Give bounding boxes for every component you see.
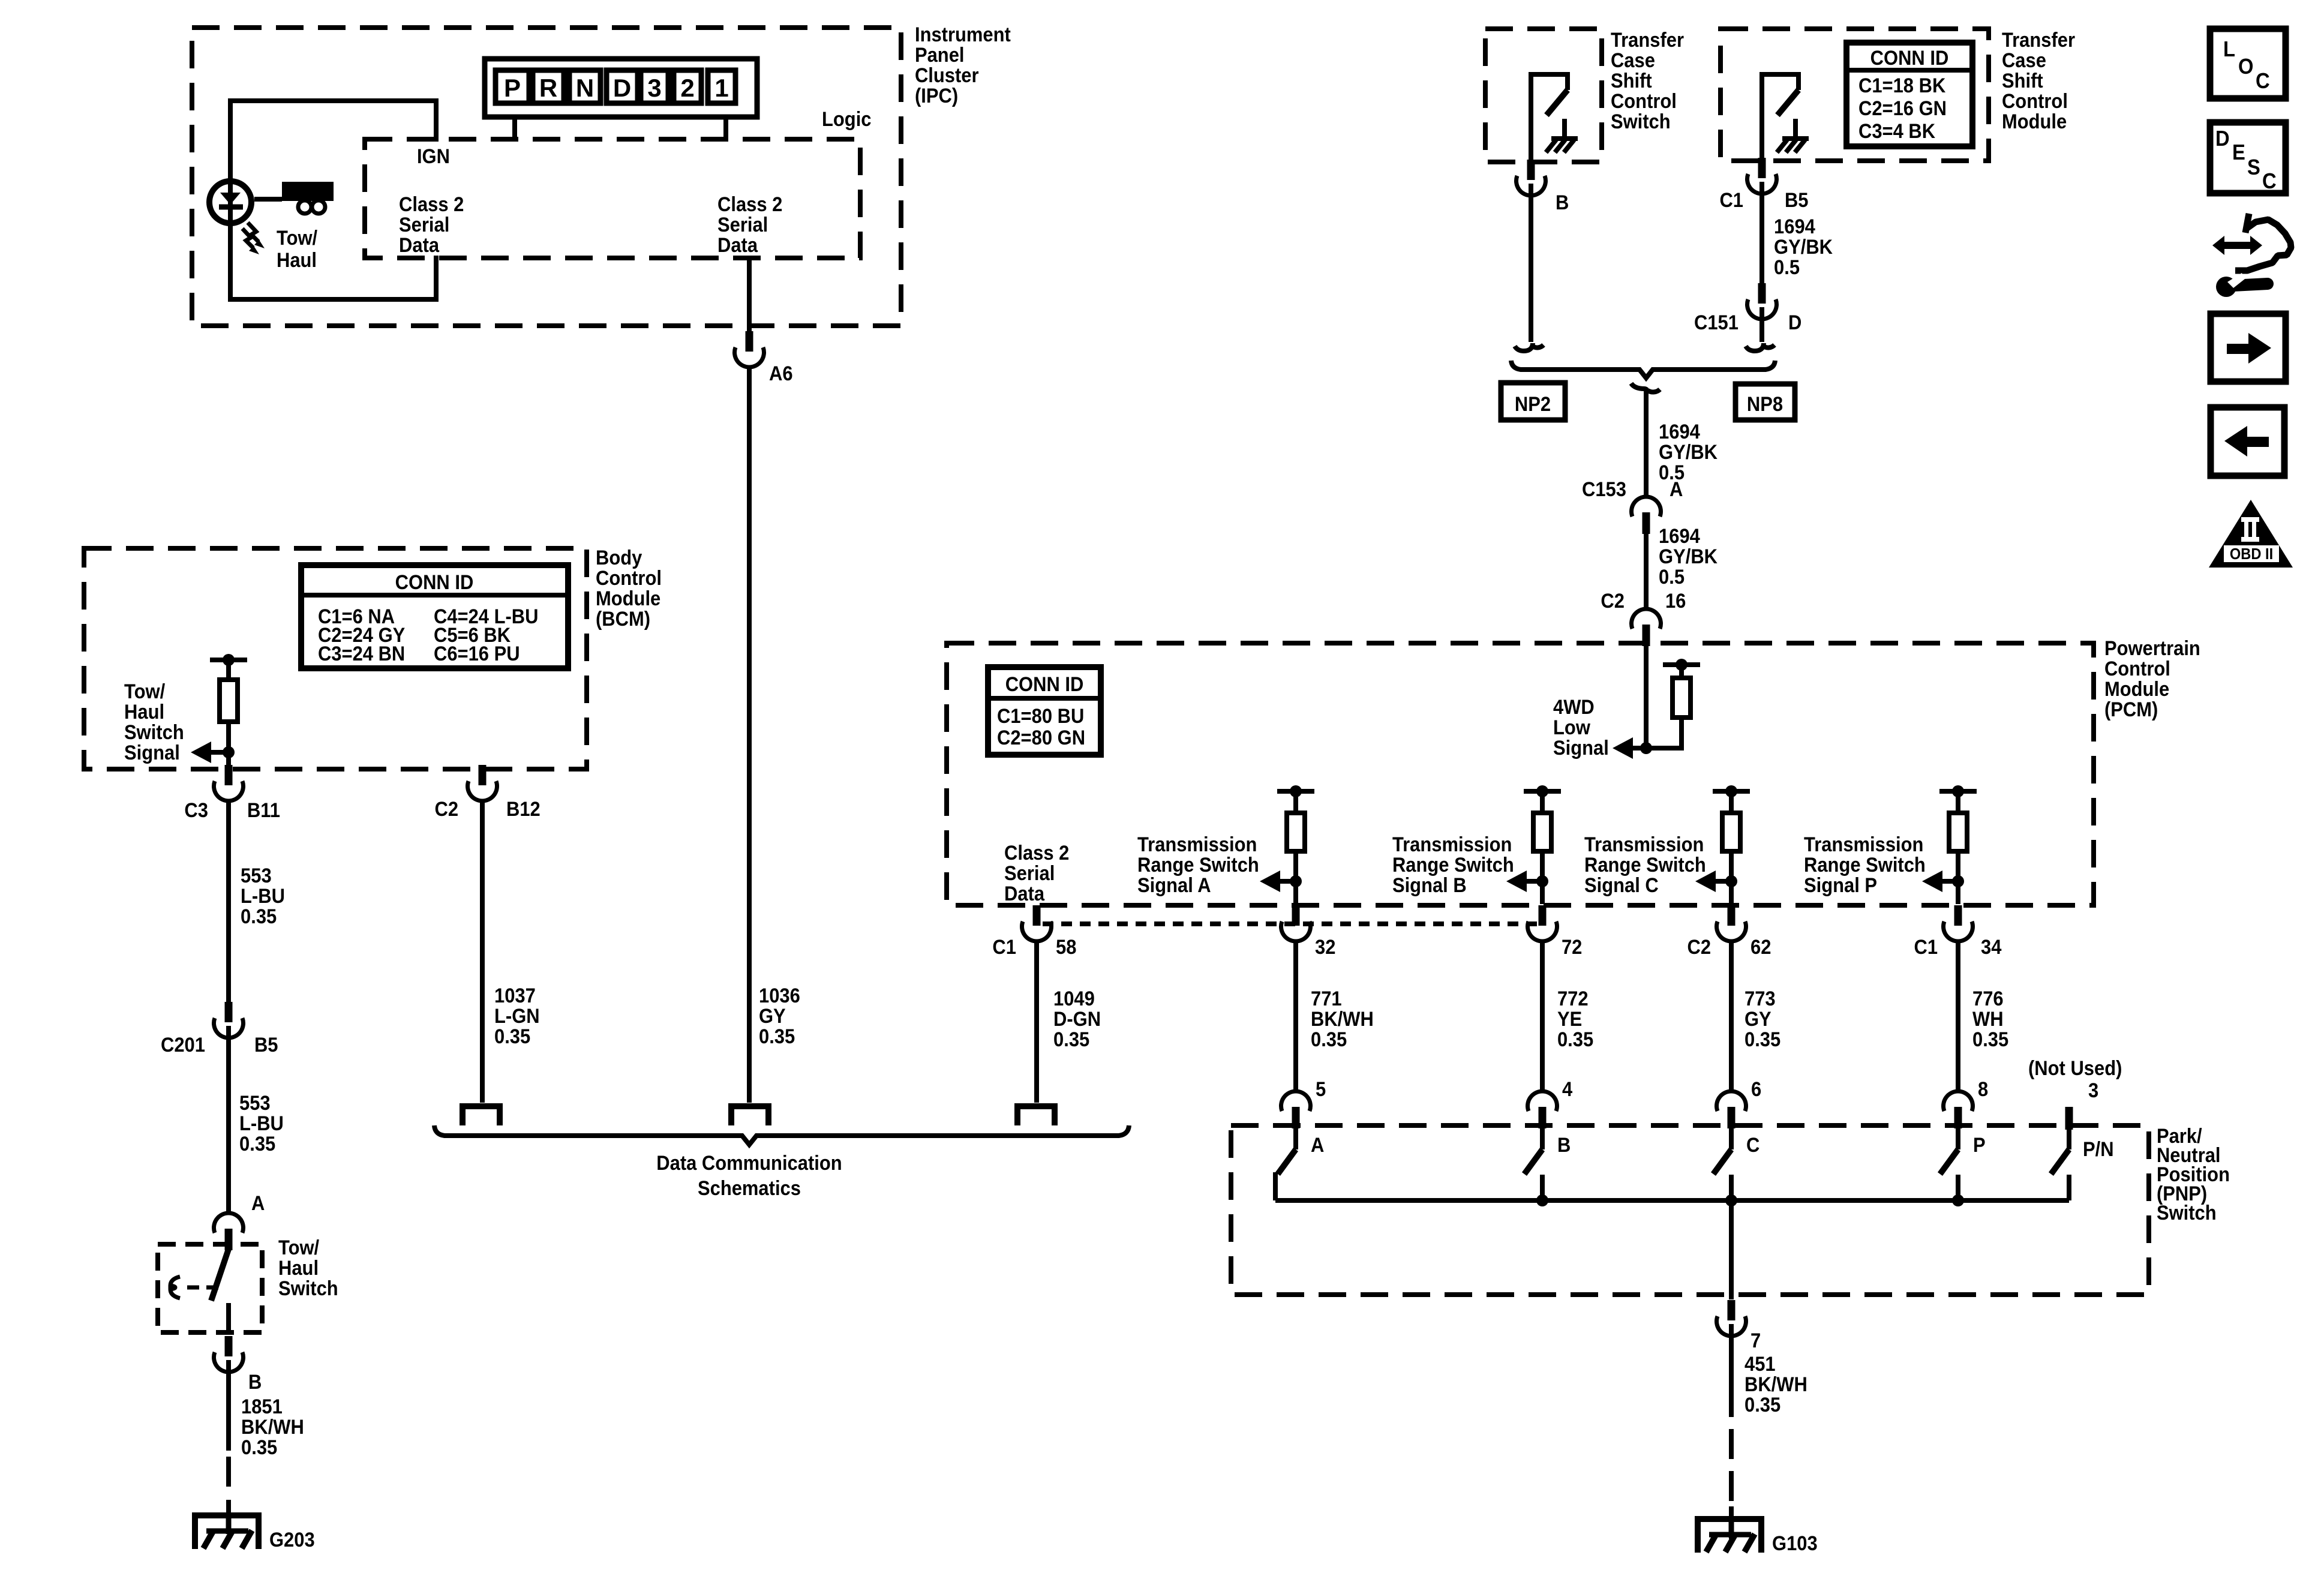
svg-text:7: 7 <box>1750 1329 1761 1352</box>
svg-text:4WD: 4WD <box>1553 696 1595 719</box>
connector pin 5 at PNP switch <box>1292 1107 1300 1128</box>
logic box inside IPC, dashed <box>365 139 860 258</box>
svg-text:C3=4 BK: C3=4 BK <box>1858 120 1936 143</box>
svg-text:B5: B5 <box>1785 189 1809 212</box>
wire 1851 dashed segment <box>226 1457 231 1487</box>
svg-text:P: P <box>1973 1134 1986 1157</box>
resistor (range switch signal A pull-up) <box>1277 789 1314 794</box>
svg-text:Shift: Shift <box>1611 70 1652 92</box>
svg-text:B: B <box>1557 1134 1571 1157</box>
wire start swash below brace <box>1631 383 1660 394</box>
svg-text:Transmission: Transmission <box>1804 833 1923 856</box>
svg-text:72: 72 <box>1562 936 1582 959</box>
svg-text:776: 776 <box>1972 987 2004 1010</box>
junction node signal B <box>1536 875 1548 887</box>
svg-text:G203: G203 <box>269 1529 315 1551</box>
wire from bus to pin 7 <box>1729 1200 1734 1299</box>
svg-text:Class 2: Class 2 <box>717 193 782 216</box>
svg-text:1694: 1694 <box>1659 421 1700 443</box>
svg-text:C1: C1 <box>992 936 1016 959</box>
svg-text:C: C <box>2262 170 2277 194</box>
svg-text:B: B <box>1556 191 1569 214</box>
brace Data Communication Schematics <box>434 1125 1129 1145</box>
PRND segment N <box>569 70 600 103</box>
svg-text:C1: C1 <box>1719 189 1743 212</box>
svg-text:553: 553 <box>241 864 272 887</box>
svg-text:1851: 1851 <box>241 1395 283 1418</box>
connector A6 at IPC <box>746 331 753 352</box>
svg-text:Module: Module <box>2002 110 2067 133</box>
svg-text:B5: B5 <box>254 1034 278 1056</box>
wire 553 L-BU lower <box>226 1026 231 1214</box>
svg-text:N: N <box>576 74 594 102</box>
svg-text:Logic: Logic <box>822 108 871 131</box>
PRND segment D <box>606 70 638 103</box>
connector B at Tow/Haul switch <box>225 1336 233 1356</box>
junction node 4WD low <box>1640 742 1652 754</box>
svg-text:Class 2: Class 2 <box>399 193 464 216</box>
svg-text:CONN ID: CONN ID <box>1005 673 1084 696</box>
wire 1049 D-GN <box>1034 941 1039 1103</box>
resistor (range switch signal B pull-up) <box>1524 789 1561 794</box>
module box PCM (Powertrain Control Module), dashed <box>947 643 2094 905</box>
CONN ID table (TC module) <box>1846 43 1972 146</box>
svg-text:Switch: Switch <box>124 721 184 744</box>
svg-text:Range Switch: Range Switch <box>1804 854 1926 876</box>
wire end swash (right) <box>1746 343 1774 351</box>
svg-text:L-BU: L-BU <box>239 1112 284 1135</box>
svg-text:YE: YE <box>1557 1008 1582 1031</box>
svg-text:Powertrain: Powertrain <box>2104 637 2200 660</box>
wire inside BCM to C3 pin <box>226 722 231 767</box>
module box Transfer Case Shift Control Module, dashed <box>1721 29 1989 161</box>
bus bracket under 1036 <box>731 1106 768 1125</box>
svg-text:553: 553 <box>239 1092 271 1115</box>
CONN ID table (BCM) <box>301 565 568 668</box>
wire resistor C to PCM edge <box>1729 851 1734 904</box>
svg-text:2: 2 <box>680 74 694 102</box>
resistor (Tow/Haul switch signal pull-up) <box>210 658 247 662</box>
svg-text:0.35: 0.35 <box>239 1133 275 1155</box>
svg-text:GY/BK: GY/BK <box>1659 441 1718 464</box>
resistor (range switch signal C pull-up) <box>1713 789 1750 794</box>
connector C2 / 62 <box>1728 905 1736 926</box>
svg-text:P/N: P/N <box>2083 1138 2114 1161</box>
svg-text:16: 16 <box>1665 590 1686 613</box>
PRND321 shift indicator display <box>485 59 757 117</box>
option box NP2 <box>1501 383 1565 420</box>
svg-text:C2: C2 <box>1687 936 1711 959</box>
switch contact B of PNP <box>1540 1127 1545 1149</box>
CONN ID table (PCM) <box>988 667 1101 755</box>
svg-text:(PCM): (PCM) <box>2104 698 2158 721</box>
connector C2 / 16 at PCM <box>1643 625 1650 646</box>
svg-text:Haul: Haul <box>277 249 317 272</box>
svg-text:Class 2: Class 2 <box>1004 842 1069 864</box>
svg-text:Tow/: Tow/ <box>278 1236 319 1259</box>
svg-text:GY: GY <box>759 1005 786 1028</box>
connector C151 / D <box>1758 283 1766 304</box>
svg-text:4: 4 <box>1562 1078 1572 1101</box>
svg-text:1694: 1694 <box>1659 525 1700 548</box>
svg-text:IGN: IGN <box>417 145 450 168</box>
svg-text:Control: Control <box>2104 658 2170 680</box>
svg-text:BK/WH: BK/WH <box>241 1416 304 1439</box>
wire PRND left leg to Logic box <box>512 117 517 142</box>
wire 451 BK/WH solid <box>1729 1324 1734 1417</box>
signal arrow Transmission Range Switch Signal P <box>1939 879 1958 884</box>
svg-text:Haul: Haul <box>278 1257 319 1280</box>
svg-text:Tow/: Tow/ <box>277 227 317 250</box>
svg-text:34: 34 <box>1981 936 2001 959</box>
PRND segment P <box>496 70 529 103</box>
svg-text:Transfer: Transfer <box>2002 29 2075 52</box>
svg-text:Shift: Shift <box>2002 70 2043 92</box>
svg-text:Data: Data <box>399 234 440 257</box>
svg-text:Switch: Switch <box>1611 110 1671 133</box>
svg-text:Transmission: Transmission <box>1137 833 1257 856</box>
icon LOC box <box>2210 29 2286 98</box>
svg-text:(Not Used): (Not Used) <box>2028 1057 2122 1080</box>
svg-text:C2=80 GN: C2=80 GN <box>997 727 1085 749</box>
wire 451 dashed segment <box>1729 1429 1734 1501</box>
connector pin 6 at PNP switch <box>1728 1107 1736 1128</box>
svg-text:C3=24 BN: C3=24 BN <box>318 643 405 665</box>
svg-text:C153: C153 <box>1582 478 1626 501</box>
connector 32 <box>1292 905 1300 926</box>
svg-text:Control: Control <box>596 567 662 590</box>
switch S1 inside TC shift control switch <box>1529 74 1533 160</box>
svg-text:0.5: 0.5 <box>1659 566 1685 589</box>
connector C153 / A <box>1643 512 1650 534</box>
svg-text:8: 8 <box>1978 1078 1988 1101</box>
svg-text:Schematics: Schematics <box>698 1177 801 1200</box>
connector C3 / B11 at BCM <box>225 765 233 785</box>
svg-text:C1=18 BK: C1=18 BK <box>1858 74 1946 97</box>
svg-text:0.35: 0.35 <box>1311 1028 1347 1051</box>
junction node signal C <box>1725 875 1737 887</box>
svg-text:Cluster: Cluster <box>915 64 979 87</box>
svg-text:32: 32 <box>1315 936 1335 959</box>
wire up into Logic box bottom <box>434 256 439 302</box>
svg-text:Data Communication: Data Communication <box>656 1152 842 1175</box>
dotted harness line from 58 to 72 <box>1043 921 1539 926</box>
brace joining B and D wires <box>1511 361 1775 378</box>
PRND segment 2 <box>674 70 701 103</box>
svg-text:C2: C2 <box>1601 590 1625 613</box>
svg-text:(BCM): (BCM) <box>596 608 650 631</box>
bus bracket under 1049 <box>1017 1106 1055 1125</box>
svg-text:NP2: NP2 <box>1515 393 1551 416</box>
svg-text:CONN ID: CONN ID <box>1870 47 1949 70</box>
svg-text:A: A <box>1670 478 1683 501</box>
wire 771 BK/WH <box>1293 941 1298 1092</box>
svg-text:Switch: Switch <box>278 1277 338 1300</box>
wire resistor P to PCM edge <box>1956 851 1960 904</box>
svg-text:Range Switch: Range Switch <box>1137 854 1259 876</box>
svg-text:Signal P: Signal P <box>1804 874 1877 897</box>
svg-text:GY/BK: GY/BK <box>1659 545 1718 568</box>
svg-text:Module: Module <box>596 587 660 610</box>
svg-text:3: 3 <box>2088 1079 2098 1102</box>
connector A at Tow/Haul switch <box>225 1229 233 1250</box>
option box NP8 <box>1736 384 1795 420</box>
svg-text:0.5: 0.5 <box>1774 256 1800 279</box>
wire 776 WH <box>1956 941 1960 1092</box>
connector C2 / B12 at BCM <box>479 765 487 785</box>
wire down into Logic box (IGN) <box>434 98 439 142</box>
signal arrow Transmission Range Switch Signal C <box>1712 879 1731 884</box>
wire stub to G203 <box>226 1500 231 1534</box>
svg-text:GY: GY <box>1744 1008 1771 1031</box>
svg-text:A: A <box>251 1192 265 1215</box>
svg-text:451: 451 <box>1744 1353 1776 1376</box>
svg-text:1037: 1037 <box>494 984 536 1007</box>
svg-text:0.35: 0.35 <box>759 1025 795 1048</box>
signal arrow 4WD Low Signal <box>1629 746 1646 751</box>
svg-text:0.35: 0.35 <box>1053 1028 1089 1051</box>
wire 4WD low signal inside PCM <box>1644 644 1649 748</box>
svg-text:Signal A: Signal A <box>1137 874 1211 897</box>
svg-text:1036: 1036 <box>759 984 800 1007</box>
svg-text:0.35: 0.35 <box>494 1025 530 1048</box>
svg-text:D: D <box>1788 311 1801 334</box>
svg-text:Transmission: Transmission <box>1392 833 1512 856</box>
PRND segment 3 <box>641 70 668 103</box>
wire Class 2 serial data from Logic box to IPC edge <box>747 258 752 331</box>
wire D down to brace <box>1759 307 1764 342</box>
wire B5 down to C151 <box>1759 182 1764 284</box>
svg-text:0.35: 0.35 <box>1557 1028 1593 1051</box>
svg-text:771: 771 <box>1311 987 1342 1010</box>
svg-text:C: C <box>2256 70 2270 94</box>
svg-text:0.35: 0.35 <box>1972 1028 2008 1051</box>
svg-text:R: R <box>539 74 557 102</box>
wire 1851 BK/WH solid <box>226 1360 231 1451</box>
svg-text:Signal C: Signal C <box>1584 874 1659 897</box>
svg-text:Serial: Serial <box>399 214 449 236</box>
ground (TC module internal) <box>1793 119 1798 138</box>
wire IPC top horizontal <box>228 98 436 103</box>
svg-text:C: C <box>1746 1134 1759 1157</box>
junction node signal P <box>1952 875 1964 887</box>
svg-text:C3: C3 <box>184 799 208 822</box>
svg-text:D: D <box>613 74 631 102</box>
switch contact P of PNP <box>1956 1127 1960 1149</box>
module box BCM (Body Control Module), dashed <box>84 548 587 769</box>
LED indicator (Tow/Haul lamp) <box>209 181 251 223</box>
icon vehicle outline with arrows and wrench <box>2235 214 2291 271</box>
svg-text:Case: Case <box>1611 49 1655 72</box>
svg-text:1694: 1694 <box>1774 215 1815 238</box>
wire end swash (left) <box>1515 343 1544 351</box>
wire 772 YE <box>1540 941 1545 1092</box>
icon OBD II triangle <box>2209 500 2293 568</box>
svg-text:GY/BK: GY/BK <box>1774 236 1833 259</box>
svg-text:Case: Case <box>2002 49 2046 72</box>
svg-text:B11: B11 <box>247 799 280 822</box>
bus bracket under 1037 <box>463 1106 500 1125</box>
svg-text:Control: Control <box>1611 90 1677 113</box>
svg-text:C1: C1 <box>1914 936 1938 959</box>
svg-text:Body: Body <box>596 547 642 569</box>
svg-text:D: D <box>2215 127 2230 151</box>
signal arrow Transmission Range Switch Signal B <box>1523 879 1542 884</box>
icon right arrow box <box>2211 314 2286 382</box>
svg-text:6: 6 <box>1751 1078 1761 1101</box>
svg-text:OBD II: OBD II <box>2230 546 2273 563</box>
wire 553 L-BU upper <box>226 801 231 1004</box>
svg-text:Signal: Signal <box>124 742 180 764</box>
svg-text:L-BU: L-BU <box>241 885 285 908</box>
svg-text:B: B <box>248 1371 262 1394</box>
wire 1694 to C153 <box>1644 390 1649 498</box>
svg-text:A6: A6 <box>769 362 793 385</box>
connector C1 / 34 <box>1954 905 1962 926</box>
icon DESC box <box>2210 122 2286 193</box>
pin 3 stub (not used) <box>2065 1107 2073 1130</box>
switch contact C of PNP <box>1729 1127 1734 1149</box>
svg-text:C6=16 PU: C6=16 PU <box>434 643 520 665</box>
svg-text:CONN ID: CONN ID <box>395 571 474 594</box>
ground (TC switch internal) <box>1562 119 1567 138</box>
svg-text:S: S <box>2247 156 2260 180</box>
svg-text:(IPC): (IPC) <box>915 85 958 107</box>
svg-text:Switch: Switch <box>2157 1202 2217 1224</box>
svg-text:Transmission: Transmission <box>1584 833 1704 856</box>
svg-text:773: 773 <box>1744 987 1776 1010</box>
svg-text:C151: C151 <box>1694 311 1739 334</box>
svg-text:O: O <box>2238 55 2253 79</box>
svg-text:0.35: 0.35 <box>241 1436 277 1459</box>
svg-text:NP8: NP8 <box>1747 393 1783 416</box>
svg-text:Data: Data <box>717 234 758 257</box>
svg-text:L: L <box>2223 38 2235 62</box>
junction node Tow/Haul switch signal <box>223 746 235 758</box>
svg-text:772: 772 <box>1557 987 1589 1010</box>
wire PRND right leg to Logic box <box>723 117 728 142</box>
ground G103 <box>1698 1519 1761 1553</box>
connector C1 / 58 (Class 2 serial data) <box>1033 905 1041 926</box>
svg-text:Range Switch: Range Switch <box>1584 854 1706 876</box>
wire 1036 GY from A6 to data bus <box>747 367 752 1103</box>
svg-text:P: P <box>504 74 521 102</box>
svg-text:5: 5 <box>1316 1078 1326 1101</box>
svg-text:Instrument: Instrument <box>915 23 1011 46</box>
wire stub to G103 <box>1729 1506 1734 1539</box>
svg-text:58: 58 <box>1056 936 1076 959</box>
svg-text:Tow/: Tow/ <box>124 680 165 703</box>
connector 72 <box>1539 905 1547 926</box>
wire 1037 L-GN <box>480 801 485 1103</box>
wire resistor A to PCM edge <box>1293 851 1298 904</box>
svg-text:WH: WH <box>1972 1008 2004 1031</box>
wire IPC bottom horizontal <box>228 297 436 302</box>
svg-text:C201: C201 <box>161 1034 205 1056</box>
mechanical linkage symbol <box>170 1277 180 1298</box>
junction node signal A <box>1290 875 1302 887</box>
LED light emission arrows <box>248 223 259 242</box>
svg-text:3: 3 <box>647 74 661 102</box>
svg-text:BK/WH: BK/WH <box>1744 1373 1807 1396</box>
trailer icon next to LED <box>254 197 282 202</box>
connector pin 7 at PNP switch <box>1728 1300 1736 1320</box>
wire 1694 to C2-16 <box>1644 532 1649 610</box>
switch contact A of PNP <box>1293 1127 1298 1149</box>
wire LED branch vertical <box>228 101 233 299</box>
svg-text:C2: C2 <box>434 798 458 821</box>
module box Park/Neutral Position (PNP) Switch, dashed <box>1231 1125 2149 1295</box>
resistor (range switch signal P pull-up) <box>1939 789 1977 794</box>
svg-text:Signal: Signal <box>1553 737 1609 760</box>
PRND segment R <box>533 70 564 103</box>
PRND segment 1 <box>708 70 735 103</box>
svg-text:Panel: Panel <box>915 44 965 67</box>
svg-text:G103: G103 <box>1772 1532 1818 1555</box>
switch S2 inside TC shift control module <box>1759 74 1764 158</box>
svg-text:Haul: Haul <box>124 701 164 724</box>
switch blade Tow/Haul <box>211 1249 229 1301</box>
connector B at TC switch <box>1527 160 1535 180</box>
svg-text:Serial: Serial <box>717 214 768 236</box>
svg-text:Module: Module <box>2104 678 2169 701</box>
svg-text:C2=16 GN: C2=16 GN <box>1858 97 1947 120</box>
svg-text:62: 62 <box>1750 936 1771 959</box>
svg-text:0.35: 0.35 <box>1744 1394 1780 1416</box>
switch contact P/N of PNP <box>2067 1130 2071 1149</box>
svg-text:E: E <box>2232 141 2245 165</box>
svg-text:Serial: Serial <box>1004 862 1055 885</box>
svg-text:Low: Low <box>1553 716 1591 739</box>
svg-text:Control: Control <box>2002 90 2068 113</box>
wire from B down to brace <box>1529 184 1533 342</box>
svg-text:L-GN: L-GN <box>494 1005 540 1028</box>
svg-text:1: 1 <box>714 74 728 102</box>
wire 773 GY <box>1729 941 1734 1092</box>
svg-text:Signal B: Signal B <box>1392 874 1467 897</box>
svg-text:BK/WH: BK/WH <box>1311 1008 1374 1031</box>
module box IPC (Instrument Panel Cluster), dashed <box>192 28 901 326</box>
svg-text:0.35: 0.35 <box>241 905 277 928</box>
svg-text:B12: B12 <box>506 798 541 821</box>
wire resistor B to PCM edge <box>1540 851 1545 904</box>
wire PNP common bus <box>1275 1198 2069 1203</box>
resistor R1 (4WD low pull-up) <box>1663 662 1700 667</box>
svg-text:Transfer: Transfer <box>1611 29 1684 52</box>
connector pin 4 at PNP switch <box>1539 1107 1547 1128</box>
svg-text:Range Switch: Range Switch <box>1392 854 1514 876</box>
icon left arrow box <box>2211 407 2284 476</box>
connector pin 8 at PNP switch <box>1954 1107 1962 1128</box>
svg-text:Data: Data <box>1004 882 1045 905</box>
svg-text:1049: 1049 <box>1053 987 1095 1010</box>
ground G203 <box>195 1515 259 1549</box>
svg-text:0.35: 0.35 <box>1744 1028 1780 1051</box>
component box Tow/Haul Switch, dashed <box>158 1244 262 1332</box>
svg-text:A: A <box>1311 1134 1324 1157</box>
module box Transfer Case Shift Control Switch, dashed <box>1485 29 1602 162</box>
connector C201 / B5 <box>225 1002 233 1022</box>
signal arrow Transmission Range Switch Signal A <box>1277 879 1296 884</box>
svg-text:C1=80 BU: C1=80 BU <box>997 705 1084 728</box>
connector C1 / B5 at TC module <box>1758 158 1766 178</box>
svg-text:D-GN: D-GN <box>1053 1008 1101 1031</box>
signal arrow Tow/Haul Switch Signal <box>208 750 229 755</box>
